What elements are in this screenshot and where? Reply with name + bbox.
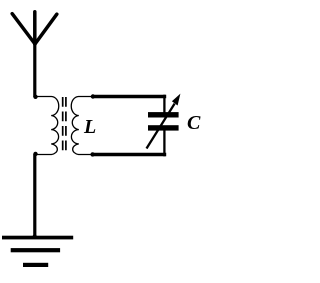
node secondary bottom terminal [90,152,94,156]
wire capacitor right vertical upper [163,95,165,113]
wire capacitor right vertical lower [163,130,165,156]
wire antenna lead-in [33,42,36,97]
ground bar 2 [11,248,60,252]
wire primary bottom to ground [33,154,36,238]
wire top (secondary to capacitor) [93,95,167,99]
inductor L secondary winding [71,97,92,155]
capacitor variable arrow [147,104,175,149]
node top-left junction [33,95,37,99]
node ground junction [33,234,37,238]
node secondary top terminal [91,94,95,98]
ground bar 1 [2,236,73,240]
antenna [12,12,57,44]
svg-text:C: C [187,112,201,134]
capacitor C plates [148,112,179,117]
inductor primary winding [36,97,59,155]
transformer core dashed lines [63,97,66,150]
ground bar 3 [23,263,48,267]
svg-text:L: L [83,116,96,138]
node bottom-left junction [33,152,37,156]
wire bottom (secondary to capacitor) [93,153,167,157]
